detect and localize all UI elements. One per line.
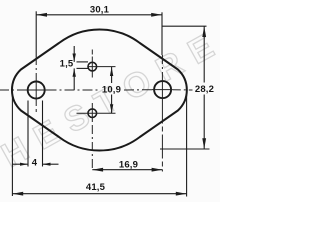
pin bottom vertical centerline (91, 103, 93, 122)
mounting hole left (28, 82, 45, 99)
svg-text:4: 4 (32, 157, 38, 168)
mounting hole right (154, 81, 171, 98)
dimension 28,2 right (160, 26, 210, 149)
pin top horizontal centerline (88, 66, 115, 68)
svg-text:41,5: 41,5 (86, 182, 106, 193)
svg-text:28,2: 28,2 (195, 84, 214, 95)
dimension 41,5 bottom (12, 91, 186, 197)
pin top (88, 62, 97, 71)
dimension 1,5 (pin dia) (73, 46, 89, 90)
dimension 4 (hole dia) (12, 101, 58, 167)
left hole vertical centerline (35, 57, 37, 112)
svg-text:30,1: 30,1 (90, 4, 110, 15)
svg-text:10,9: 10,9 (102, 84, 121, 95)
dimension 30,1 top (36, 11, 162, 57)
dimension 16,9 (92, 168, 162, 172)
pin bottom horizontal centerline (77, 112, 116, 114)
watermark HESTORE diagonal (0, 22, 231, 175)
pin top vertical centerline (91, 50, 93, 78)
TO-3 flange outline (12, 29, 187, 150)
svg-text:16,9: 16,9 (119, 160, 138, 171)
dimension 10,9 (pin spacing) (110, 67, 113, 113)
pin bottom (88, 109, 97, 118)
svg-text:1,5: 1,5 (60, 59, 74, 70)
horizontal centerline through holes (0, 89, 193, 91)
right hole vertical centerline (161, 55, 163, 172)
